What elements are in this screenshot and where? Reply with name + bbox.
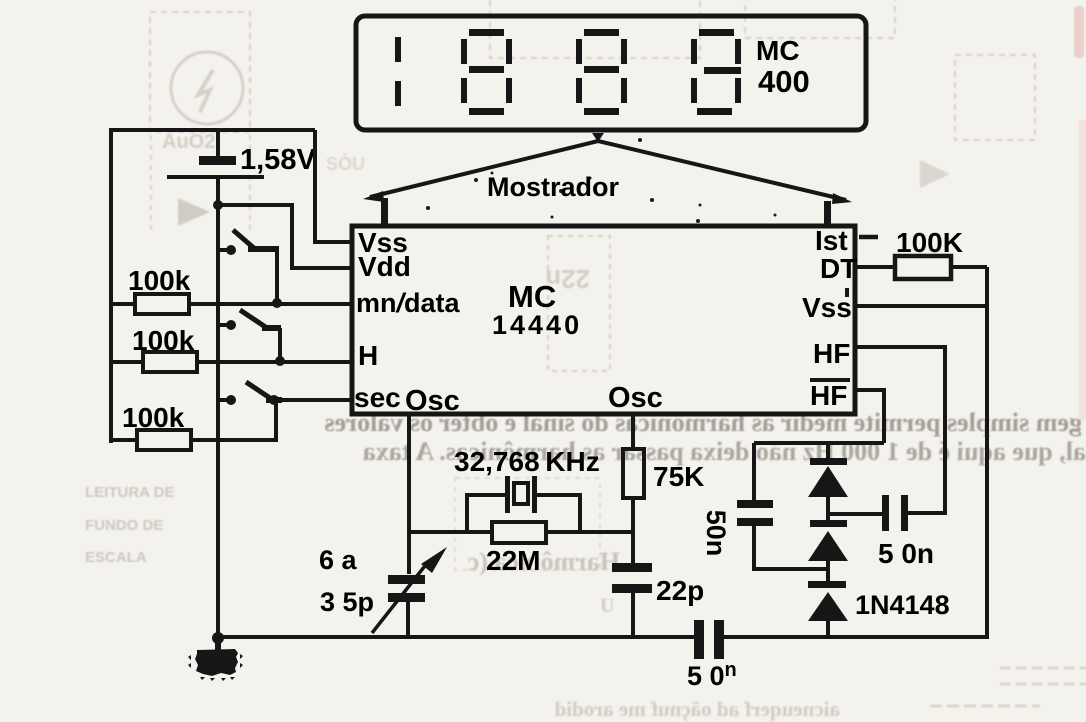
wire central rail: [216, 179, 220, 639]
wire sec line: [274, 398, 352, 402]
svg-text:sec: sec: [354, 382, 401, 413]
wire left rail: [109, 128, 113, 443]
svg-text:Osc: Osc: [608, 382, 663, 414]
svg-text:75K: 75K: [653, 461, 704, 492]
svg-text:AuO2: AuO2: [162, 131, 215, 153]
diode D3 1N4148: [808, 561, 848, 637]
svg-text:H: H: [358, 340, 378, 371]
callout roof to Mostrador: [370, 141, 846, 200]
wire bottom rail (right of C50n): [724, 635, 987, 639]
trimmer capacitor CV1: [372, 547, 447, 637]
resistor R4 22M: [492, 522, 546, 543]
node battery-minus: [213, 200, 223, 210]
wire Osc2 vertical top: [631, 414, 635, 449]
wire 22p to rail: [631, 593, 635, 637]
svg-text:1N4148: 1N4148: [855, 590, 950, 620]
resistor R2 100k: [143, 352, 197, 372]
diode D1 1N4148: [808, 443, 848, 497]
svg-text:ESCALA: ESCALA: [85, 549, 147, 566]
resistor R1 100k: [135, 294, 189, 314]
wire to C3 top: [752, 443, 756, 502]
svg-text:LEITURA DE: LEITURA DE: [85, 484, 174, 501]
svg-text:400: 400: [758, 64, 810, 99]
switch S3 (sec): [218, 382, 282, 405]
display digit 8 (fourth): [691, 29, 741, 115]
wire Vdd branch: [218, 205, 352, 268]
svg-text:14440: 14440: [492, 310, 582, 340]
svg-text:Osc: Osc: [405, 385, 460, 417]
svg-text:50n: 50n: [701, 510, 731, 557]
wire right rail: [985, 267, 989, 639]
svg-text:U: U: [600, 595, 614, 617]
battery B1 1,58V: [167, 156, 264, 179]
svg-text:100k: 100k: [132, 325, 195, 356]
wire bottom rail (left of C50n): [218, 635, 694, 639]
svg-text:Vss: Vss: [802, 292, 852, 323]
svg-text:22M: 22M: [486, 545, 540, 576]
svg-text:Vdd: Vdd: [358, 251, 411, 282]
ground symbol: [188, 640, 243, 681]
svg-text:Mostrador: Mostrador: [487, 172, 620, 202]
display digit 8 (second): [461, 29, 512, 115]
svg-text:SÒU: SÒU: [326, 153, 365, 174]
svg-text:Ist: Ist: [815, 225, 848, 256]
svg-text:100k: 100k: [128, 265, 191, 296]
wire C3 bottom to d2-d3 junction: [754, 526, 828, 569]
wire Vss branch: [315, 130, 352, 242]
wire C4 to HF vertical: [908, 511, 945, 515]
svg-text:3 5p: 3 5p: [320, 587, 374, 617]
capacitor C3 50n (left, vertical): [737, 500, 773, 526]
display module MC400 (LCD): [356, 16, 866, 130]
wire DT line: [855, 265, 987, 269]
crystal X1 32,768KHz: [467, 476, 580, 532]
wire diode top node: [754, 441, 884, 445]
svg-text:32,768 KHz: 32,768 KHz: [454, 446, 600, 477]
wire Osc2 vertical mid: [631, 498, 635, 563]
wire HF line: [855, 347, 945, 513]
resistor R5 75K: [623, 449, 644, 498]
wire Vss' line: [855, 304, 987, 308]
wire Ist stub: [859, 235, 878, 240]
op IC U1 MC14440 body: [352, 226, 855, 414]
capacitor C1 22p: [612, 563, 652, 593]
svg-text:MC: MC: [756, 35, 800, 66]
svg-text:HF: HF: [813, 338, 850, 369]
wire d1-d2 junction to C4: [828, 512, 882, 516]
switch S1 (mn/data): [218, 230, 282, 308]
wire HF-bar line: [855, 390, 884, 443]
capacitor C4 50n (right, horizontal): [882, 495, 908, 531]
wire battery top: [216, 130, 220, 156]
display digit 1: [395, 37, 401, 106]
display digit 8 (third): [576, 29, 627, 115]
resistor R3 100k: [137, 430, 191, 450]
svg-text:6 a: 6 a: [319, 545, 358, 575]
svg-text:FUNDO DE: FUNDO DE: [85, 517, 163, 534]
svg-text:1,58V: 1,58V: [240, 144, 316, 176]
svg-text:22p: 22p: [656, 575, 704, 606]
svg-text:aicneuqerf ad oãçnuf me arodid: aicneuqerf ad oãçnuf me arodid: [554, 697, 840, 721]
svg-text:HF: HF: [810, 380, 847, 411]
node ground junction: [212, 632, 224, 644]
wire top rail: [111, 128, 315, 132]
wire R3 line: [111, 400, 276, 440]
wire Osc1 vertical: [407, 414, 411, 574]
capacitor C2 50n (bottom rail): [694, 620, 724, 659]
svg-text:DT: DT: [820, 253, 857, 284]
wire mn/data line: [111, 302, 352, 306]
svg-text:mn/data: mn/data: [356, 288, 461, 318]
diode D2 1N4148: [808, 497, 848, 561]
resistor R6 100K: [895, 256, 951, 279]
wire H line: [111, 360, 352, 364]
svg-text:MC: MC: [508, 279, 556, 314]
svg-text:100k: 100k: [122, 402, 185, 433]
svg-text:100K: 100K: [896, 227, 963, 258]
switch S2 (H): [218, 310, 285, 366]
svg-text:5 0n: 5 0n: [878, 538, 934, 569]
wire network bottom: [409, 530, 633, 534]
